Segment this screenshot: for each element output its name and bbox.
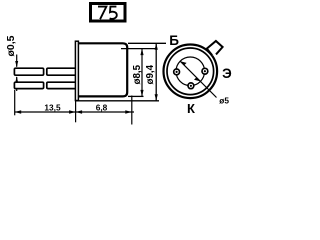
extension line: body bottom to ø8,5 bbox=[128, 95, 144, 97]
bottom view outer circle (flange ø9,4) bbox=[164, 45, 218, 99]
digit 7 bbox=[98, 7, 106, 20]
dia dimension line ø9,4 bbox=[155, 43, 157, 101]
dia dimension line ø8,5 bbox=[141, 49, 143, 97]
upper lead left segment bbox=[14, 68, 43, 75]
extension line: flange bottom to ø9,4 bbox=[75, 100, 159, 102]
svg-text:Э: Э bbox=[222, 66, 232, 81]
extension line: 6,8 right bbox=[131, 96, 133, 125]
pin pitch circle ø5 bbox=[176, 57, 205, 86]
extension line: flange down bbox=[75, 101, 77, 123]
orientation tab bbox=[207, 41, 223, 55]
lead dia dimension line lower arrow bbox=[16, 77, 18, 91]
can body (side view) bbox=[79, 43, 127, 96]
lead dia dimension line upper arrow bbox=[16, 55, 18, 67]
svg-text:К: К bbox=[187, 101, 195, 116]
extension line: lead tip down bbox=[14, 90, 16, 116]
svg-text:Б: Б bbox=[169, 33, 179, 48]
upper lead right segment bbox=[47, 68, 77, 75]
lower lead right segment bbox=[47, 82, 77, 88]
case number box "75" bbox=[91, 4, 126, 22]
bottom view inner circle (body ø8,5) bbox=[167, 48, 214, 95]
extension line: can top to dia dims bbox=[128, 42, 166, 44]
can flange (side view) bbox=[75, 41, 78, 100]
svg-text:ø5: ø5 bbox=[219, 96, 229, 106]
pin E (emitter) bbox=[202, 68, 208, 74]
svg-text:ø8,5: ø8,5 bbox=[132, 64, 143, 84]
pin K (collector) bbox=[188, 83, 194, 89]
svg-text:ø9,4: ø9,4 bbox=[145, 64, 156, 84]
svg-text:6,8: 6,8 bbox=[96, 102, 108, 112]
pin B (base) bbox=[174, 69, 180, 75]
lower lead left segment bbox=[14, 82, 43, 88]
digit 5 bbox=[110, 7, 117, 19]
pitch dia dimension line bbox=[180, 61, 216, 97]
extension line: body top for ø8,5 bbox=[121, 48, 157, 50]
svg-text:13,5: 13,5 bbox=[44, 102, 61, 112]
dimension line 13,5 / 6,8 bbox=[15, 111, 134, 113]
svg-text:ø0,5: ø0,5 bbox=[5, 35, 17, 56]
